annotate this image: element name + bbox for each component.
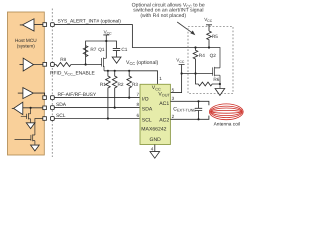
MCU SDA pulldown FET: [21, 108, 31, 123]
junction: R3 top: [128, 70, 130, 72]
resistor R1: [106, 71, 111, 119]
junction: Vcc / VOUT: [181, 72, 183, 74]
svg-text:SYS_ALERT_INT# (optional): SYS_ALERT_INT# (optional): [58, 18, 121, 24]
svg-text:C1: C1: [121, 47, 127, 52]
svg-text:6: 6: [136, 113, 139, 118]
svg-text:MAX66242: MAX66242: [141, 126, 166, 132]
wire: Vcc node to Q2 gate: [182, 73, 213, 75]
svg-text:GND: GND: [150, 137, 161, 143]
buffer: SYS_ALERT input (left-pointing): [20, 19, 43, 31]
buffer: RF-BUSY (right-pointing): [18, 88, 45, 99]
svg-text:RF-AIF/RF-BUSY: RF-AIF/RF-BUSY: [58, 91, 97, 97]
junction: R1 top: [107, 70, 109, 72]
Vcc optional rail to pin 1: [104, 71, 158, 85]
junction dot SDA: [30, 107, 32, 109]
antenna coil: [209, 104, 243, 120]
svg-text:5: 5: [172, 87, 175, 92]
svg-text:R7: R7: [90, 47, 96, 52]
optional circuit dashed box: [188, 27, 233, 94]
wire: pin 3 AC1: [170, 101, 209, 105]
resistor R8: [54, 63, 101, 67]
wire SYS_ALERT to optional circuit: [54, 25, 220, 48]
junction: R5 bottom: [208, 46, 210, 48]
svg-text:AC1: AC1: [159, 101, 169, 107]
svg-text:(with R4 not placed): (with R4 not placed): [140, 13, 186, 19]
junction: R2 top: [114, 70, 116, 72]
wire: pin 2 AC2: [170, 116, 209, 120]
wire: IC GND pin 4: [154, 145, 156, 152]
transistor Q1: [102, 58, 107, 71]
svg-text:I/O: I/O: [142, 96, 149, 102]
resistor R6: [196, 74, 220, 86]
terminal square SCL: [43, 117, 47, 121]
svg-text:SDA: SDA: [142, 106, 153, 112]
ground: C1: [112, 57, 121, 63]
terminal ENABLE: [51, 63, 55, 67]
ground: MCU SCL FET: [31, 145, 40, 151]
svg-text:R2: R2: [118, 82, 124, 87]
resistor R7: [83, 46, 88, 57]
terminal square RF: [43, 96, 47, 100]
svg-text:switched on an alert/INT signa: switched on an alert/INT signal: [133, 7, 203, 13]
terminal square SYS_ALERT: [43, 23, 47, 27]
svg-text:R8: R8: [60, 57, 66, 62]
svg-text:2: 2: [172, 114, 175, 119]
junction: R7 bottom on ENABLE: [85, 63, 87, 65]
MCU SCL pulldown FET: [15, 134, 35, 145]
junction: R4 bottom: [194, 72, 196, 74]
svg-text:(system): (system): [17, 43, 35, 48]
annotation arrow: [177, 22, 192, 33]
junction: R2 on SDA: [114, 107, 116, 109]
IC U1 MAX66242: [140, 84, 170, 144]
wire SCL into MCU: [35, 119, 43, 136]
junction: Vcc rail: [105, 40, 107, 42]
svg-text:8: 8: [136, 102, 139, 107]
buffer: RFID_VCC_ENABLE output (right-pointing): [20, 58, 43, 71]
svg-text:Q2: Q2: [210, 53, 216, 58]
svg-text:R5: R5: [212, 34, 218, 39]
wire: VOUT pin 5: [170, 74, 181, 93]
capacitor C_EXT-TUNE: [195, 101, 202, 119]
terminal SCL: [51, 117, 55, 121]
buffer: SDA receiver (left-pointing): [12, 102, 43, 114]
junction: cap on AC2: [197, 118, 199, 120]
svg-text:1: 1: [159, 76, 162, 81]
ground: Q2: [215, 89, 225, 96]
svg-text:R4: R4: [199, 53, 205, 58]
svg-text:R3: R3: [132, 82, 138, 87]
terminal SYS_ALERT: [51, 23, 55, 27]
ground: MCU SDA FET: [26, 123, 35, 129]
svg-text:3: 3: [172, 96, 175, 101]
junction: R4 top: [194, 46, 196, 48]
ground: IC: [150, 152, 160, 159]
svg-text:Antenna coil: Antenna coil: [214, 121, 240, 126]
terminal square ENABLE: [43, 63, 47, 67]
resistor R4: [193, 48, 198, 74]
dashed module boundary: [51, 9, 53, 158]
junction: R1 on SCL: [107, 117, 109, 119]
junction: R6 / Q2 drain: [219, 83, 221, 85]
Host MCU box: [8, 12, 45, 155]
svg-text:Q1: Q1: [98, 47, 104, 52]
resistor R3: [127, 71, 132, 98]
terminal SDA: [51, 106, 55, 110]
capacitor C1: [113, 48, 120, 57]
svg-text:SCL: SCL: [142, 117, 152, 123]
svg-text:SCL: SCL: [56, 112, 66, 118]
svg-text:AC2: AC2: [159, 117, 169, 123]
svg-text:R6: R6: [213, 77, 219, 82]
terminal RF: [51, 96, 55, 100]
junction: R3 on RF: [128, 97, 130, 99]
svg-text:4: 4: [151, 146, 154, 151]
svg-text:SDA: SDA: [56, 101, 66, 107]
svg-text:R1: R1: [100, 82, 106, 87]
resistor R2: [112, 71, 117, 108]
junction: cap on AC1: [197, 100, 199, 102]
svg-text:Host MCU: Host MCU: [15, 38, 37, 43]
resistor R5: [207, 31, 212, 48]
terminal square SDA: [43, 106, 47, 110]
svg-text:7: 7: [136, 92, 139, 97]
Vcc rail R7-C1: [86, 41, 117, 65]
